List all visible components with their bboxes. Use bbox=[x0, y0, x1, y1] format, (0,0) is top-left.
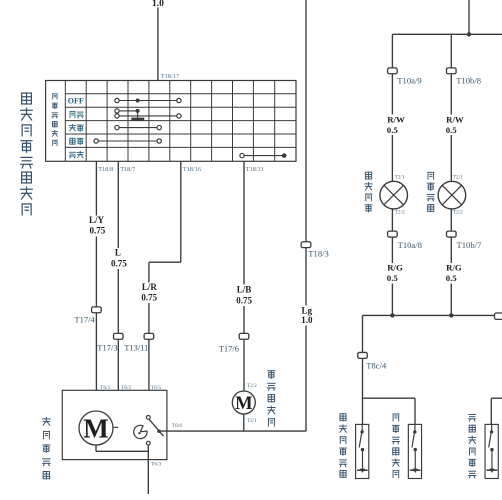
connector T17/3 bbox=[114, 333, 124, 339]
svg-text:R/W: R/W bbox=[387, 114, 405, 124]
label T18/7 bbox=[120, 166, 135, 173]
row label 高速 bbox=[70, 138, 83, 144]
lamp E2 right front door bbox=[438, 181, 466, 209]
svg-text:OFF: OFF bbox=[68, 96, 84, 105]
vertical title 前雨刮电机 bbox=[43, 418, 51, 479]
label R/W 0.5 left bbox=[385, 114, 405, 135]
pin label T2/1 washer bbox=[247, 418, 257, 424]
svg-text:T18/3: T18/3 bbox=[308, 248, 329, 258]
label T18/11 bbox=[246, 166, 264, 173]
power bus bbox=[392, 33, 502, 35]
wire L/Y from T18/8 to T6/1 bbox=[95, 161, 97, 390]
washer motor M2 bbox=[232, 391, 255, 414]
label R/G 0.5 left bbox=[385, 263, 403, 284]
pin label T2/1 lamp1 bbox=[395, 174, 405, 180]
row label 洗涤 bbox=[69, 151, 83, 158]
switch S3 left rear door lamp switch bbox=[485, 424, 498, 478]
wiper motor box bbox=[62, 390, 167, 459]
label T18/17 bbox=[161, 73, 179, 80]
motor M1 wiper motor bbox=[79, 411, 118, 445]
svg-text:T2/1: T2/1 bbox=[395, 174, 405, 180]
wire W1 1.0 into switch T18/17 bbox=[157, 8, 159, 81]
junction dot bus bbox=[467, 32, 471, 36]
pin label T6/5 bbox=[151, 385, 162, 391]
svg-text:T2/2: T2/2 bbox=[395, 210, 405, 216]
wire down to T8c/4 bbox=[362, 315, 364, 424]
label L 0.75 bbox=[110, 248, 131, 270]
svg-text:T18/7: T18/7 bbox=[120, 166, 135, 173]
svg-text:T18/16: T18/16 bbox=[183, 166, 201, 173]
svg-text:T17/6: T17/6 bbox=[219, 343, 239, 353]
connector T10a/9 bbox=[388, 68, 398, 74]
label R/G 0.5 right bbox=[444, 263, 462, 284]
wire T6/3 down bbox=[147, 445, 149, 494]
svg-text:T17/3: T17/3 bbox=[97, 343, 117, 353]
svg-text:L/Y: L/Y bbox=[89, 215, 105, 225]
svg-text:T6/1: T6/1 bbox=[100, 385, 111, 391]
label T10a/8 bbox=[398, 240, 422, 250]
svg-text:R/W: R/W bbox=[446, 114, 464, 124]
intermittent position contacts bbox=[115, 109, 181, 121]
table column title 前雨刮器开关 bbox=[52, 94, 58, 146]
connector T17/6 bbox=[239, 333, 249, 339]
svg-text:T2/2: T2/2 bbox=[453, 210, 463, 216]
branch from right edge bbox=[491, 398, 502, 424]
switch S2 right front door lamp switch bbox=[408, 424, 421, 478]
svg-text:T6/3: T6/3 bbox=[151, 462, 162, 468]
vertical title 右前门灯 bbox=[427, 172, 434, 211]
svg-text:T10a/8: T10a/8 bbox=[398, 240, 422, 250]
edge connector right bbox=[495, 313, 502, 319]
svg-text:R/G: R/G bbox=[446, 263, 462, 273]
connector T17/4 bbox=[92, 307, 102, 313]
label T6/6 bbox=[172, 423, 183, 429]
vertical title 右前门灯开关 bbox=[392, 414, 399, 478]
svg-text:T18/17: T18/17 bbox=[161, 73, 179, 80]
label T10b/7 bbox=[457, 240, 483, 250]
wire to T10b/8 bbox=[450, 34, 452, 182]
label L/B 0.75 bbox=[235, 285, 255, 307]
wiper switch table grid bbox=[46, 81, 296, 162]
low speed contacts bbox=[115, 125, 162, 129]
park switch contacts bbox=[146, 416, 150, 446]
vertical title 左前门灯 bbox=[365, 172, 372, 212]
vertical title 前洗涤电机 bbox=[268, 371, 276, 426]
connector T8c/4 bbox=[358, 352, 368, 358]
connector T10b/8 bbox=[447, 68, 457, 74]
vertical title 左后门灯开关 bbox=[469, 415, 476, 478]
park switch lever bbox=[149, 419, 164, 436]
junction dot lamp1 bbox=[390, 313, 394, 317]
label T17/3 bbox=[97, 343, 117, 353]
connector T13/11 bbox=[144, 333, 154, 339]
label T6/3 bbox=[151, 462, 162, 468]
label 1.0 on wire W1 bbox=[152, 0, 164, 9]
svg-text:T18/11: T18/11 bbox=[246, 166, 264, 173]
connector T10b/7 bbox=[447, 231, 457, 237]
pin label T2/2 lamp2 bbox=[453, 210, 463, 216]
label T18/3 bbox=[308, 248, 329, 258]
label T17/4 bbox=[74, 315, 95, 325]
label L/R 0.75 bbox=[140, 282, 160, 303]
svg-text:T8c/4: T8c/4 bbox=[366, 361, 387, 371]
svg-text:0.5: 0.5 bbox=[446, 273, 458, 283]
svg-text:T6/6: T6/6 bbox=[172, 423, 183, 429]
wire from top right bbox=[468, 0, 470, 34]
label T18/8 bbox=[98, 166, 113, 173]
svg-text:M: M bbox=[235, 394, 252, 414]
pin label T2/1 lamp2 bbox=[453, 174, 463, 180]
svg-text:0.75: 0.75 bbox=[141, 293, 157, 303]
label T10b/8 bbox=[456, 76, 481, 86]
label R/W 0.5 right bbox=[444, 114, 464, 135]
svg-text:T2/2: T2/2 bbox=[247, 383, 257, 389]
wire L from T18/7 to T6/2 bbox=[117, 161, 119, 390]
label T10a/9 bbox=[397, 76, 421, 86]
pin label T2/2 lamp1 bbox=[395, 210, 405, 216]
branch to right switch bbox=[363, 398, 416, 424]
svg-text:T10b/8: T10b/8 bbox=[456, 76, 481, 86]
label T8c/4 bbox=[366, 361, 387, 371]
svg-text:L/B: L/B bbox=[237, 285, 252, 295]
svg-text:T18/8: T18/8 bbox=[98, 166, 113, 173]
label L/Y 0.75 bbox=[88, 215, 108, 237]
vertical title 左前门灯开关 bbox=[339, 414, 346, 478]
pin label T6/2 bbox=[121, 385, 132, 391]
svg-text:T2/1: T2/1 bbox=[247, 418, 257, 424]
svg-text:0.5: 0.5 bbox=[446, 125, 458, 135]
wire lamp1 down bbox=[391, 208, 393, 315]
label T13/11 bbox=[124, 343, 148, 353]
row label 低速 bbox=[69, 125, 83, 132]
wire washer motor to bus bbox=[243, 414, 245, 431]
wire Lg vertical bbox=[305, 0, 307, 431]
wire to T10a/9 bbox=[391, 34, 393, 182]
svg-text:T10a/9: T10a/9 bbox=[397, 76, 421, 86]
label T18/16 bbox=[183, 166, 201, 173]
svg-text:R/G: R/G bbox=[387, 263, 403, 273]
wire T6/6 to mid bus bbox=[159, 430, 306, 432]
label Lg 1.0 bbox=[300, 306, 314, 326]
junction dot lamp2 bbox=[449, 313, 453, 317]
svg-text:T13/11: T13/11 bbox=[124, 343, 148, 353]
svg-text:Lg: Lg bbox=[302, 306, 313, 316]
lamp E1 left front door bbox=[380, 181, 408, 209]
svg-text:T10b/7: T10b/7 bbox=[457, 240, 483, 250]
svg-text:0.75: 0.75 bbox=[111, 259, 127, 269]
wire lamp2 down bbox=[450, 208, 452, 315]
svg-text:L/R: L/R bbox=[142, 282, 158, 292]
row label OFF bbox=[68, 96, 84, 105]
motor internal wire to park switch bbox=[96, 445, 148, 451]
svg-text:1.0: 1.0 bbox=[152, 0, 164, 9]
wire L/R from T18/16 to T6/5 bbox=[149, 161, 181, 390]
svg-text:T17/4: T17/4 bbox=[74, 315, 95, 325]
svg-text:0.75: 0.75 bbox=[236, 296, 252, 306]
svg-text:1.0: 1.0 bbox=[301, 315, 313, 325]
park switch cam bbox=[134, 425, 147, 438]
svg-text:T6/2: T6/2 bbox=[121, 385, 132, 391]
high speed contacts bbox=[94, 139, 161, 143]
svg-text:0.5: 0.5 bbox=[387, 125, 399, 135]
connector T18/3 bbox=[301, 242, 311, 248]
label T17/6 bbox=[219, 343, 239, 353]
row label 间歇 bbox=[70, 112, 83, 118]
svg-text:M: M bbox=[83, 414, 108, 444]
pin label T2/2 washer bbox=[247, 383, 257, 389]
pin label T6/1 bbox=[100, 385, 111, 391]
svg-text:T6/5: T6/5 bbox=[151, 385, 162, 391]
svg-text:T2/1: T2/1 bbox=[453, 174, 463, 180]
wash contacts bbox=[240, 153, 287, 158]
wire L/B from T18/11 to washer motor bbox=[243, 161, 245, 391]
connector T10a/8 bbox=[388, 231, 398, 237]
switch S1 left front door lamp switch bbox=[356, 424, 369, 478]
vertical title 前后雨刮控制开关 (front/rear wiper control switch) bbox=[21, 93, 33, 215]
svg-text:L: L bbox=[115, 248, 121, 258]
svg-text:0.75: 0.75 bbox=[90, 226, 106, 236]
svg-text:0.5: 0.5 bbox=[387, 273, 399, 283]
ground junction line bbox=[363, 314, 496, 316]
OFF position contacts bbox=[115, 98, 181, 102]
